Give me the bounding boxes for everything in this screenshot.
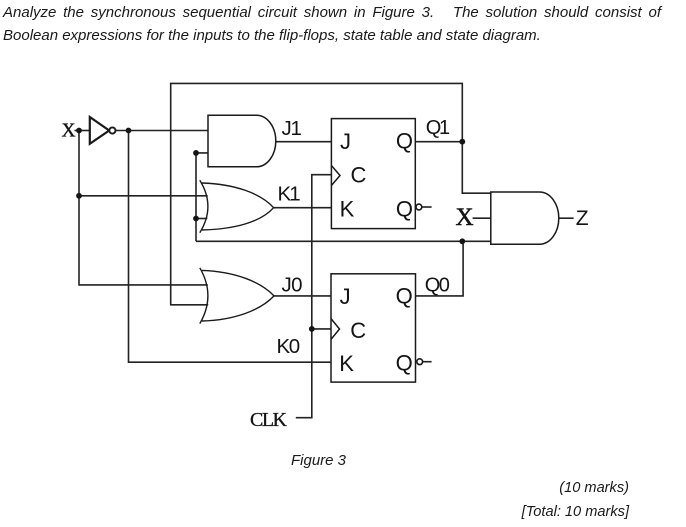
svg-text:CLK: CLK xyxy=(250,409,288,431)
inverter U1 xyxy=(90,117,116,144)
svg-text:C: C xyxy=(350,318,366,343)
wire X to OR K1 top input xyxy=(79,195,208,197)
OR gate (K1) xyxy=(202,183,274,230)
svg-text:K: K xyxy=(339,351,354,376)
svg-text:C: C xyxy=(351,162,367,187)
wire X right stub xyxy=(473,217,491,219)
wire inverter output to AND J1 xyxy=(116,130,209,132)
wire Z output xyxy=(558,217,573,219)
svg-text:Q0: Q0 xyxy=(425,275,450,297)
node Q0fb to J1 junction xyxy=(193,150,199,156)
svg-text:K1: K1 xyxy=(278,183,301,206)
wire Q1 output xyxy=(415,141,462,143)
svg-text:Q: Q xyxy=(396,283,413,308)
OR gate (J0) xyxy=(202,270,274,321)
svg-text:Q: Q xyxy=(396,128,413,153)
FF0 clock wedge xyxy=(331,319,340,340)
wire X vertical branch xyxy=(79,131,210,285)
wire Q0 output up to feedback xyxy=(416,241,464,296)
svg-text:K: K xyxy=(340,197,355,222)
svg-text:J: J xyxy=(340,284,351,309)
caption Figure 3 xyxy=(291,452,346,469)
node X-in junction xyxy=(76,128,82,134)
flip-flop FF0 box xyxy=(331,274,416,382)
wire J1 AND output to FF1 J xyxy=(276,141,332,143)
svg-text:J1: J1 xyxy=(282,117,302,140)
wire Q1 feedback top loop xyxy=(171,83,463,304)
wire Q1' stub xyxy=(422,206,432,208)
svg-text:Q: Q xyxy=(396,351,413,376)
node CLK junction xyxy=(309,326,315,332)
node Q1 junction xyxy=(459,139,465,145)
svg-text:Q1: Q1 xyxy=(426,117,450,139)
node X' junction xyxy=(126,128,132,134)
AND gate (J1) xyxy=(208,115,276,167)
wire X input stub xyxy=(75,130,90,132)
wire Q0' stub xyxy=(423,361,432,363)
wire CLK stub to FF0 C xyxy=(312,328,331,330)
svg-text:J0: J0 xyxy=(282,274,303,297)
marks line 1 xyxy=(559,480,629,496)
wire J0 OR output to FF0 J xyxy=(274,295,331,297)
wire K1 OR output to FF1 K xyxy=(274,207,332,209)
wire CLK xyxy=(296,175,332,418)
svg-text:Q: Q xyxy=(396,197,413,222)
svg-text:J: J xyxy=(340,129,351,154)
wire Q0 branch to OR K1 lower input xyxy=(196,218,208,220)
FF1 Q' bubble xyxy=(416,204,422,210)
svg-text:K0: K0 xyxy=(277,335,300,358)
AND gate (Z) xyxy=(491,192,559,244)
wire Q1 down to AND Z top input xyxy=(462,142,491,194)
node Q0fb junction xyxy=(459,238,465,244)
flip-flop FF1 box xyxy=(331,119,415,229)
node Q0fb to K1 junction xyxy=(193,216,199,222)
marks line 2 xyxy=(522,504,629,520)
svg-text:X: X xyxy=(456,204,474,231)
junction dots xyxy=(76,128,465,332)
wire X' vertical to K0 xyxy=(129,131,332,363)
wire Q0 feedback long horizontal to AND Z xyxy=(196,240,491,242)
svg-text:X: X xyxy=(62,120,76,141)
wire Q0 feedback vertical branch xyxy=(196,153,208,241)
node X to K1 junction xyxy=(76,193,82,199)
FF0 Q' bubble xyxy=(417,359,423,365)
svg-text:Z: Z xyxy=(576,207,589,230)
FF1 clock wedge xyxy=(331,166,340,186)
